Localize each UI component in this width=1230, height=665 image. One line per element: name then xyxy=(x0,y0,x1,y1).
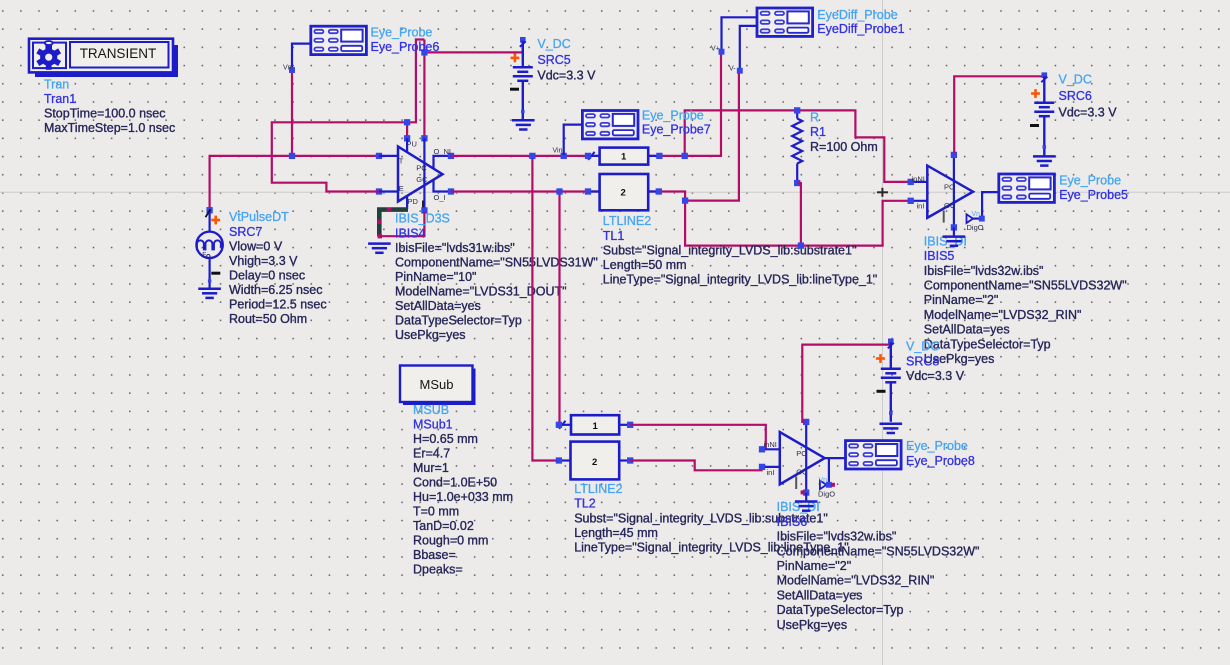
receiver IBIS5 inNI stub xyxy=(911,181,928,183)
TL2 line 2 box xyxy=(571,442,620,480)
svg-text:2: 2 xyxy=(621,188,626,199)
node: driver PC pin top xyxy=(422,136,428,142)
MSub block xyxy=(400,366,473,403)
page boundary vertical line xyxy=(882,0,884,665)
TRANSIENT gear icon xyxy=(36,41,61,70)
minus sign SRC8 xyxy=(877,390,886,393)
TL1 box1 pin stubs xyxy=(588,155,659,157)
node: driver T pin xyxy=(376,153,382,159)
ground below IBIS6 GC xyxy=(805,493,807,502)
svg-text:F: F xyxy=(202,252,206,259)
svg-text:MSUB: MSUB xyxy=(413,403,449,417)
svg-text:Eye_Probe: Eye_Probe xyxy=(642,108,704,122)
svg-text:MSub1: MSub1 xyxy=(413,418,453,432)
TL2 line 1 box xyxy=(571,415,619,434)
svg-text:PinName="2": PinName="2" xyxy=(777,559,852,573)
svg-text:inNI: inNI xyxy=(912,174,925,183)
svg-text:inNI: inNI xyxy=(764,440,777,449)
V_DC SRC5 battery xyxy=(513,37,533,120)
wire: driver PD thick dark wire xyxy=(379,210,408,237)
receiver IBIS6 pin labels xyxy=(764,440,809,477)
svg-text:V_DC: V_DC xyxy=(906,340,939,354)
IBIS5 DigO arrow xyxy=(967,214,974,223)
Eye_Probe7 pin stub xyxy=(564,125,583,155)
node: IBIS6 inI pin xyxy=(759,464,765,470)
junction on T bus at Eye_Probe6 drop xyxy=(289,153,295,159)
node: DigO junction xyxy=(979,216,984,221)
wire: TL2-2 out to IBIS6 inI xyxy=(630,461,761,471)
EyeDiff_Probe V- stub xyxy=(740,26,757,71)
svg-text:LineType="Signal_integrity_LVD: LineType="Signal_integrity_LVDS_lib:line… xyxy=(603,273,877,287)
Eye_Probe6 symbol xyxy=(311,26,367,54)
svg-text:TanD=0.02: TanD=0.02 xyxy=(413,519,474,533)
TL2 box1 input slash xyxy=(559,421,565,429)
svg-text:Tran: Tran xyxy=(44,77,69,91)
ground below SRC5 xyxy=(512,120,535,129)
receiver IBIS5 enable tick xyxy=(943,211,945,223)
node: driver E pin xyxy=(376,189,382,195)
driver O_I output lead xyxy=(434,180,452,192)
svg-text:PC: PC xyxy=(416,164,427,173)
svg-text:inI: inI xyxy=(767,468,775,477)
svg-text:MaxTimeStep=1.0 nsec: MaxTimeStep=1.0 nsec xyxy=(44,121,175,135)
EyeDiff_Probe symbol xyxy=(757,8,813,36)
svg-text:inI: inI xyxy=(917,201,925,210)
svg-text:Cond=1.0E+50: Cond=1.0E+50 xyxy=(413,476,497,490)
svg-text:H=0.65 mm: H=0.65 mm xyxy=(413,432,478,446)
driver T pin stub xyxy=(379,155,398,157)
wire: driver GC to ground (magenta) xyxy=(380,211,425,236)
svg-text:LTLINE2: LTLINE2 xyxy=(603,214,651,228)
wire: O_I net to TL1-2 and EyeDiff V- xyxy=(451,71,739,201)
svg-text:SRC8: SRC8 xyxy=(906,354,939,368)
svg-text:StopTime=100.0 nsec: StopTime=100.0 nsec xyxy=(44,106,165,120)
svg-text:IBIS6: IBIS6 xyxy=(777,515,808,529)
node: GC bottom xyxy=(422,208,428,214)
svg-text:V_DC: V_DC xyxy=(537,37,570,51)
plus sign SRC6 xyxy=(1031,89,1040,98)
svg-text:ComponentName="SN55LVDS32W": ComponentName="SN55LVDS32W" xyxy=(777,544,980,558)
wire: 3.3V rail from SRC5 to driver PU/PC/E xyxy=(272,40,523,192)
svg-text:1: 1 xyxy=(621,152,627,163)
wire: R1 bottom to O_I branch xyxy=(797,183,801,246)
TL1 line 2 box xyxy=(600,174,649,210)
svg-text:TL2: TL2 xyxy=(574,497,596,511)
svg-text:IBIS_D3S: IBIS_D3S xyxy=(395,212,450,226)
driver PC-GC pin line xyxy=(423,138,425,210)
node: V+ stub end xyxy=(719,49,724,54)
node: IBIS6 inNI pin xyxy=(759,447,765,453)
ground below IBIS5 GC xyxy=(953,227,955,236)
V_DC SRC6 battery xyxy=(1034,72,1054,155)
svg-text:Vdc=3.3 V: Vdc=3.3 V xyxy=(906,369,965,383)
svg-text:2: 2 xyxy=(592,457,597,468)
svg-text:Width=6.25 nsec: Width=6.25 nsec xyxy=(229,283,322,297)
svg-text:Length=50 mm: Length=50 mm xyxy=(603,258,687,272)
V_DC SRC8 battery xyxy=(881,339,901,422)
junction: O_NI at R1 branch xyxy=(682,153,688,159)
junction: O_I corner branch xyxy=(682,198,688,204)
svg-text:Delay=0 nsec: Delay=0 nsec xyxy=(229,269,305,283)
svg-text:DataTypeSelector=Typ: DataTypeSelector=Typ xyxy=(924,337,1051,351)
node: O_I xyxy=(448,189,454,195)
svg-text:SetAllData=yes: SetAllData=yes xyxy=(395,299,481,313)
receiver IBIS5 triangle xyxy=(927,166,973,218)
driver E pin stub xyxy=(379,190,398,192)
svg-text:GC: GC xyxy=(944,201,956,210)
svg-text:IbisFile="lvds32w.ibs": IbisFile="lvds32w.ibs" xyxy=(777,530,897,544)
ground below SRC6 xyxy=(1033,156,1056,165)
svg-text:Vin: Vin xyxy=(553,148,563,155)
svg-text:TL1: TL1 xyxy=(603,229,625,243)
junction: R1 top on O_NI branch xyxy=(794,108,800,114)
Eye_Probe5 symbol xyxy=(999,174,1055,202)
svg-text:V+: V+ xyxy=(711,46,720,53)
receiver IBIS6 inNI stub xyxy=(762,448,780,450)
wire: TL2-1 out to IBIS6 inNI xyxy=(630,425,766,450)
svg-text:IbisFile="lvds32w.ibs": IbisFile="lvds32w.ibs" xyxy=(924,264,1044,278)
svg-text:V-: V- xyxy=(729,66,736,73)
driver PU pin line xyxy=(406,138,408,152)
svg-text:PD: PD xyxy=(408,197,419,206)
svg-text:GC: GC xyxy=(416,175,428,184)
svg-text:DataTypeSelector=Typ: DataTypeSelector=Typ xyxy=(777,603,904,617)
svg-text:SetAllData=yes: SetAllData=yes xyxy=(777,588,863,602)
TRANSIENT controller block shadow xyxy=(35,45,178,77)
TRANSIENT controller block xyxy=(29,39,173,73)
svg-text:ModelName="LVDS32_RIN": ModelName="LVDS32_RIN" xyxy=(924,308,1082,322)
node: IBIS5 GC bottom xyxy=(951,225,957,231)
wire: SRC6 to IBIS5 PC xyxy=(954,76,1044,153)
resistor R1 xyxy=(792,110,802,183)
node: Eye_Probe6 stub end xyxy=(289,67,294,72)
svg-text:Vdc=3.3 V: Vdc=3.3 V xyxy=(537,69,596,83)
svg-text:ComponentName="SN55LVDS31W": ComponentName="SN55LVDS31W" xyxy=(395,256,598,270)
junction: rail at SRC5 branch xyxy=(422,50,428,56)
node: TL2-1 in xyxy=(556,422,562,428)
plus sign SRC5 xyxy=(511,54,520,63)
plus sign SRC7 xyxy=(211,216,220,225)
svg-text:Length=45 mm: Length=45 mm xyxy=(574,526,658,540)
TL1 line 1 box xyxy=(600,148,649,165)
svg-text:Eye_Probe: Eye_Probe xyxy=(1059,173,1121,187)
driver pin labels xyxy=(399,139,451,206)
svg-text:ModelName="LVDS31_DOUT": ModelName="LVDS31_DOUT" xyxy=(395,285,567,299)
svg-text:Vlow=0 V: Vlow=0 V xyxy=(229,240,283,254)
node: IBIS6 DigO junction xyxy=(826,482,831,487)
receiver IBIS6 triangle xyxy=(780,432,825,484)
VtPulseDT source SRC7 xyxy=(196,209,222,287)
junction: O_NI at Eye_Probe7 xyxy=(561,153,567,159)
svg-text:R=100 Ohm: R=100 Ohm xyxy=(810,140,878,154)
svg-text:Rout=50 Ohm: Rout=50 Ohm xyxy=(229,312,307,326)
svg-text:Bbase=: Bbase= xyxy=(413,548,456,562)
driver O_NI output lead xyxy=(434,156,452,168)
junction: O_NI at TL2 drop xyxy=(530,153,536,159)
svg-text:Eye_Probe: Eye_Probe xyxy=(906,439,968,453)
svg-text:DigO: DigO xyxy=(967,223,984,232)
svg-text:Eye_Probe6: Eye_Probe6 xyxy=(371,40,440,54)
wire: SRC8 to IBIS6 PC xyxy=(802,342,891,422)
svg-text:PinName="10": PinName="10" xyxy=(395,270,477,284)
svg-text:Eye_Probe8: Eye_Probe8 xyxy=(906,454,975,468)
svg-text:PC: PC xyxy=(944,183,955,192)
svg-text:T=0 mm: T=0 mm xyxy=(413,505,459,519)
receiver IBIS5 inI stub xyxy=(911,200,928,202)
PD wire vertex handles xyxy=(377,208,391,239)
node: TL2-2 out xyxy=(627,458,633,464)
MSub block shadow xyxy=(403,369,476,406)
junction: O_I branch at R1 xyxy=(798,243,804,249)
svg-text:DataTypeSelector=Typ: DataTypeSelector=Typ xyxy=(395,314,522,328)
svg-text:GC: GC xyxy=(796,468,808,477)
Eye_Probe7 symbol xyxy=(582,111,638,139)
wire: O_NI branch up-over to R1 top and receiver inNI xyxy=(685,110,908,181)
svg-text:Vn: Vn xyxy=(972,211,981,218)
svg-text:V_DC: V_DC xyxy=(1059,73,1092,87)
Eye_Probe5 pin wire to DigO xyxy=(982,192,999,219)
svg-text:Mur=1: Mur=1 xyxy=(413,461,449,475)
svg-text:DigO: DigO xyxy=(818,489,835,498)
junction: rail above PU pin xyxy=(404,120,410,126)
node: inNI pin xyxy=(908,179,914,185)
node: V- stub end xyxy=(737,68,742,73)
wire: TL2 feed from O_NI junction xyxy=(532,156,559,461)
svg-text:T: T xyxy=(399,157,404,166)
wire: VtPulseDT plus to T-input bus xyxy=(210,156,379,210)
wire: Eye_Probe6 drop to T bus xyxy=(291,70,293,156)
node: IBIS5 PC top xyxy=(951,152,957,158)
svg-text:TRANSIENT: TRANSIENT xyxy=(80,46,157,61)
svg-text:EyeDiff_Probe: EyeDiff_Probe xyxy=(817,8,897,22)
ground below driver xyxy=(368,244,391,253)
svg-text:PU: PU xyxy=(407,139,417,148)
svg-text:SetAllData=yes: SetAllData=yes xyxy=(924,323,1010,337)
node: TL1-1 out xyxy=(657,153,663,159)
Eye_Probe6 pin stub xyxy=(292,44,311,70)
DigO wire handles xyxy=(801,483,835,495)
IBIS5 DigO lead xyxy=(973,218,981,220)
node: inI pin xyxy=(908,198,914,204)
svg-text:Tran1: Tran1 xyxy=(44,92,76,106)
svg-text:Eye_Probe: Eye_Probe xyxy=(371,26,433,40)
svg-text:1: 1 xyxy=(593,421,599,432)
IBIS6 DigO lead and probe drop xyxy=(826,458,829,485)
receiver IBIS6 inI stub xyxy=(762,466,780,468)
minus sign SRC7 xyxy=(211,272,220,275)
receiver IBIS6 enable tick xyxy=(795,476,797,489)
plus sign SRC8 xyxy=(876,354,885,363)
page boundary horizontal line xyxy=(0,191,1230,193)
receiver IBIS5 PC-GC line xyxy=(953,155,955,228)
receiver IBIS5 pin labels xyxy=(912,174,956,210)
svg-text:IbisFile="lvds31w.ibs": IbisFile="lvds31w.ibs" xyxy=(395,241,515,255)
page center cross xyxy=(877,188,888,197)
svg-text:Vdc=3.3 V: Vdc=3.3 V xyxy=(1059,105,1118,119)
svg-text:UsePkg=yes: UsePkg=yes xyxy=(395,328,466,342)
svg-text:IBIS4: IBIS4 xyxy=(395,226,426,240)
svg-text:R1: R1 xyxy=(810,125,826,139)
svg-text:UsePkg=yes: UsePkg=yes xyxy=(777,618,848,632)
svg-text:Dpeaks=: Dpeaks= xyxy=(413,563,463,577)
node: TL1-2 in xyxy=(585,189,591,195)
node: R1 bottom xyxy=(794,180,800,186)
node: TL1-2 out xyxy=(656,189,662,195)
svg-text:Period=12.5 nsec: Period=12.5 nsec xyxy=(229,298,327,312)
driver enable tick xyxy=(422,201,424,210)
TL2 box1 pin stubs xyxy=(559,424,630,426)
wire: O_I branch down-over to R1 bottom and receiver inI xyxy=(685,201,908,246)
node: IBIS6 PC top xyxy=(803,419,809,425)
svg-text:O_I: O_I xyxy=(434,193,446,202)
svg-text:Vhigh=3.3 V: Vhigh=3.3 V xyxy=(229,254,298,268)
svg-text:SRC5: SRC5 xyxy=(537,53,570,67)
svg-text:VtPulseDT: VtPulseDT xyxy=(229,210,289,224)
svg-text:Hu=1.0e+033 mm: Hu=1.0e+033 mm xyxy=(413,490,513,504)
TL1 box1 input slash xyxy=(588,152,594,160)
node: TL2-2 in xyxy=(556,458,562,464)
TL1 box2 pin stubs xyxy=(588,190,659,192)
driver PD pin line xyxy=(406,196,408,209)
node: driver PU pin top xyxy=(404,136,410,142)
svg-text:ModelName="LVDS32_RIN": ModelName="LVDS32_RIN" xyxy=(777,574,935,588)
svg-text:SRC7: SRC7 xyxy=(229,225,262,239)
svg-text:LTLINE2: LTLINE2 xyxy=(574,482,622,496)
Eye_Probe8 symbol xyxy=(846,441,902,469)
svg-text:O_NI: O_NI xyxy=(434,147,452,156)
svg-text:ComponentName="SN55LVDS32W": ComponentName="SN55LVDS32W" xyxy=(924,279,1127,293)
svg-text:Er=4.7: Er=4.7 xyxy=(413,447,450,461)
svg-text:Vn: Vn xyxy=(283,64,292,71)
IBIS6 DigO arrow xyxy=(820,481,827,490)
wire: TL2 feed from O_I junction xyxy=(558,192,560,425)
node: VtPulseDT + terminal xyxy=(207,207,213,213)
svg-text:MSub: MSub xyxy=(420,377,454,392)
svg-text:Eye_Probe5: Eye_Probe5 xyxy=(1059,188,1128,202)
svg-text:IBIS5: IBIS5 xyxy=(924,249,955,263)
node: TL1-1 in xyxy=(585,153,591,159)
svg-text:PC: PC xyxy=(796,449,807,458)
Eye_Probe8 pin wire xyxy=(825,457,846,459)
svg-text:R: R xyxy=(810,110,819,124)
node: O_NI xyxy=(448,153,454,159)
svg-text:E: E xyxy=(399,184,404,193)
svg-text:EyeDiff_Probe1: EyeDiff_Probe1 xyxy=(817,22,904,36)
svg-text:PinName="2": PinName="2" xyxy=(924,293,999,307)
TL2 box2 pin stubs xyxy=(559,459,630,461)
svg-text:Eye_Probe7: Eye_Probe7 xyxy=(642,123,711,137)
node: IBIS6 GC bottom xyxy=(803,490,809,496)
minus sign SRC6 xyxy=(1030,124,1039,127)
svg-text:Rough=0 mm: Rough=0 mm xyxy=(413,534,488,548)
driver IBIS4 triangle xyxy=(398,147,443,202)
ground below SRC7 xyxy=(198,289,221,298)
junction: O_I at TL2 drop xyxy=(557,189,563,195)
minus sign SRC5 xyxy=(510,88,519,91)
svg-text:SRC6: SRC6 xyxy=(1059,89,1092,103)
node: TL2-1 out xyxy=(627,422,633,428)
receiver IBIS6 PC-GC line xyxy=(805,422,807,493)
svg-text:Vn: Vn xyxy=(819,477,828,484)
wire: O_NI net to TL1-1 and EyeDiff V+ xyxy=(451,52,721,156)
ground below SRC8 xyxy=(880,424,903,433)
EyeDiff_Probe V+ stub xyxy=(722,17,758,51)
svg-text:Subst="Signal_integrity_LVDS_l: Subst="Signal_integrity_LVDS_lib:substra… xyxy=(603,244,857,258)
